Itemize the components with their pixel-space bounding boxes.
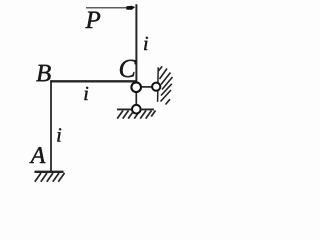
fixed support hatching at A	[35, 173, 65, 182]
fixed support ground line at A	[35, 171, 64, 173]
load arrowhead P	[126, 6, 135, 10]
wire: load line for P	[86, 7, 128, 9]
wall hatching	[158, 66, 172, 104]
beam BC	[50, 80, 136, 82]
hinge circle at C	[131, 82, 141, 92]
label i (beam BC)	[84, 87, 88, 100]
label C	[120, 60, 136, 77]
label i (upper column)	[144, 37, 148, 50]
hinge circle on ground link	[132, 105, 141, 114]
label i (column AB)	[57, 128, 61, 141]
label P	[85, 12, 100, 28]
ground hatching under C support	[117, 111, 155, 119]
vertical link below C	[135, 91, 137, 107]
hinge circle at wall (roller)	[152, 83, 160, 91]
label B	[36, 65, 50, 81]
column AB	[50, 80, 52, 171]
column C (vertical member above C)	[135, 4, 137, 84]
ground line under C support	[117, 108, 154, 110]
wall line (right link support)	[157, 67, 160, 102]
label A	[29, 147, 45, 163]
link C to wall roller	[139, 86, 153, 88]
